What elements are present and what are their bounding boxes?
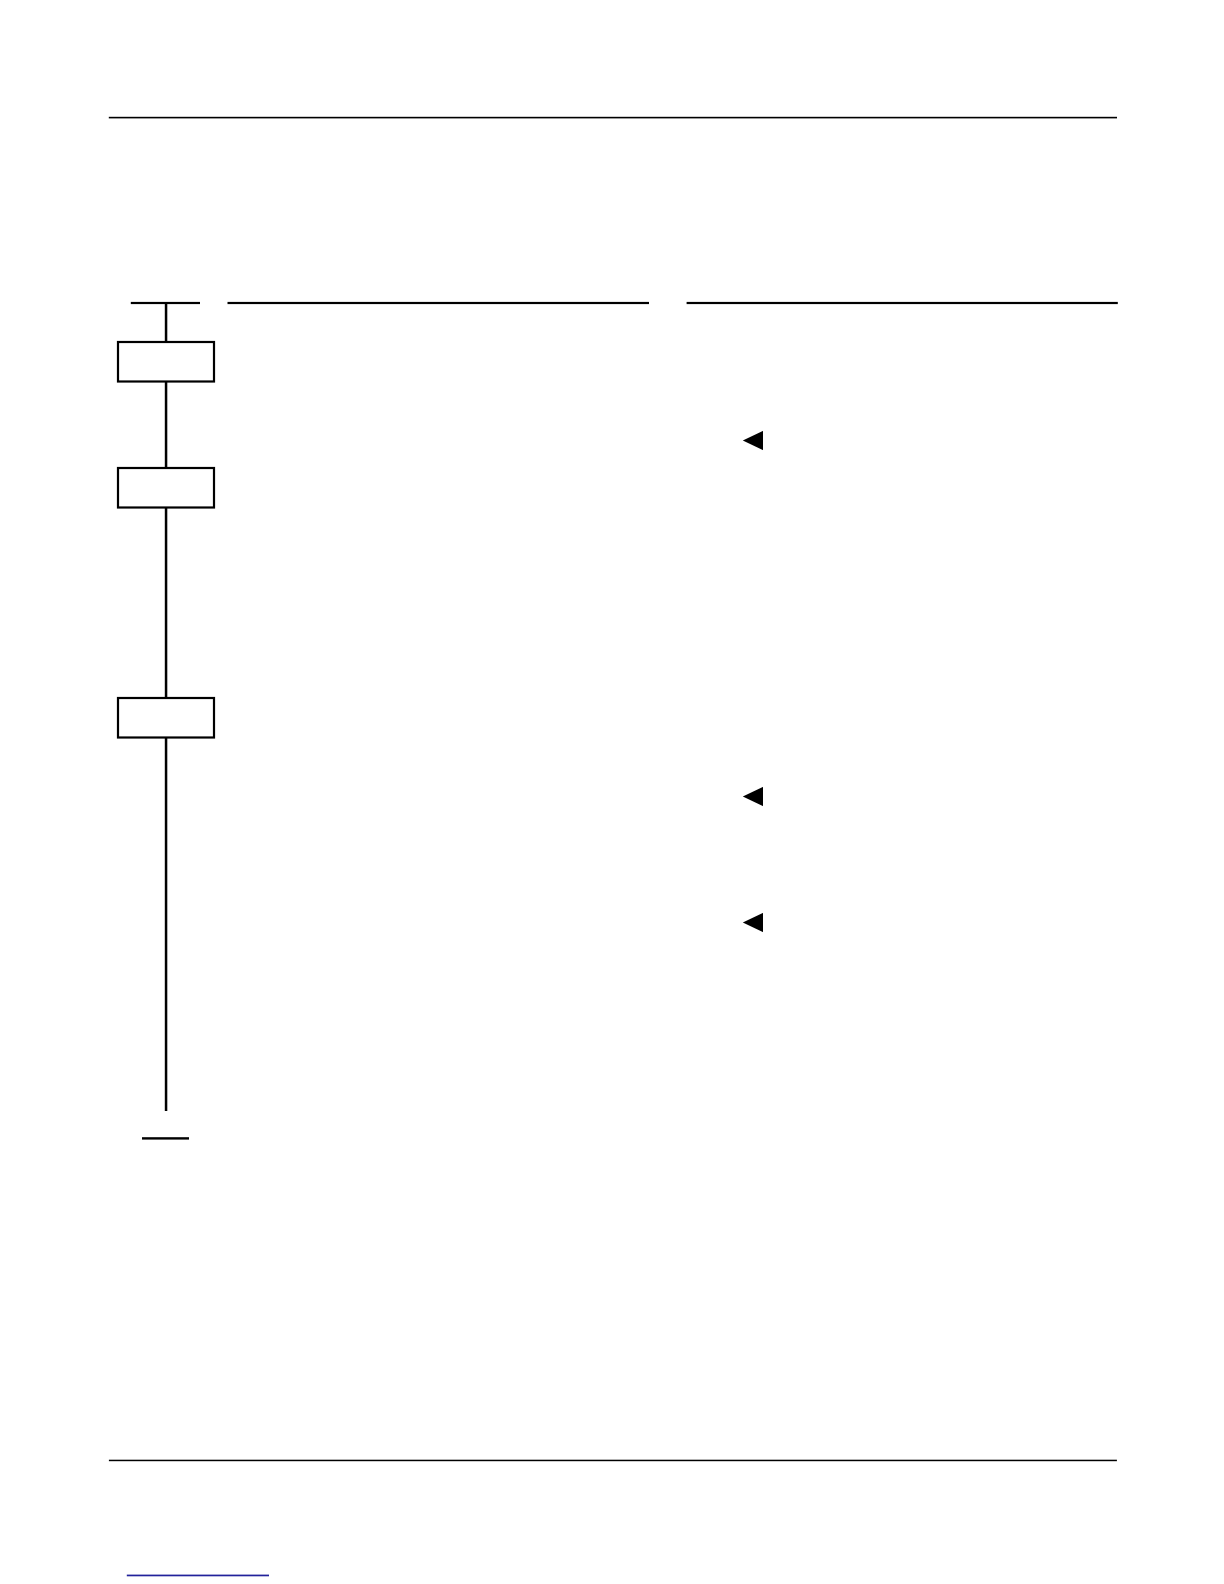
process box 2 <box>118 468 214 508</box>
flow line segment B <box>165 382 168 468</box>
flow end bar <box>142 1137 189 1139</box>
hyperlink underline <box>127 1575 269 1577</box>
revision marker triangle 2 <box>743 787 763 806</box>
flow column header bar <box>131 302 200 304</box>
process box 1 <box>118 342 214 382</box>
footer rule <box>109 1460 1117 1462</box>
flow line segment C <box>165 508 168 698</box>
flow line segment D <box>165 738 168 1111</box>
flow line segment A <box>165 302 168 342</box>
middle column header rule <box>228 302 650 304</box>
right column header rule <box>687 302 1118 304</box>
process box 3 <box>118 698 214 738</box>
top header rule <box>109 117 1117 119</box>
revision marker triangle 3 <box>743 913 763 932</box>
revision marker triangle 1 <box>743 431 763 450</box>
